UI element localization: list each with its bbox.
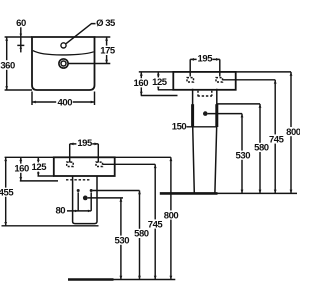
waste outlet dot (side) xyxy=(83,196,88,201)
dimension 800 (front) xyxy=(290,72,292,193)
fixing hole left (front, dashed) xyxy=(187,78,194,82)
pedestal left edge (front) xyxy=(193,89,195,193)
dimension 800 (side) xyxy=(170,157,172,279)
drain centerline extension to 175 dim xyxy=(68,63,110,65)
dimension 400 xyxy=(32,101,95,103)
160 reference line (side) xyxy=(20,180,58,182)
tap hole circle xyxy=(61,43,66,48)
leader line for tap hole diameter xyxy=(66,24,96,44)
basin inner rim line (plan) xyxy=(33,51,94,55)
hidden dashes under basin (side) xyxy=(66,179,91,181)
fixing hole right (front, dashed) xyxy=(216,78,223,82)
top edge extension line (plan) xyxy=(5,36,111,38)
dimension 580 (side) xyxy=(139,191,141,280)
pedestal right edge (front) xyxy=(215,89,217,193)
svg-text:150: 150 xyxy=(172,121,187,132)
drain outer circle xyxy=(59,59,68,68)
svg-text:60: 60 xyxy=(16,18,26,29)
svg-text:80: 80 xyxy=(55,206,65,217)
svg-text:530: 530 xyxy=(236,151,251,162)
580 reference line (front, slot top) xyxy=(217,103,260,105)
top edge extension (front) xyxy=(139,71,291,73)
svg-text:160: 160 xyxy=(134,78,149,89)
waste outlet dot (front) xyxy=(203,111,208,116)
dimension 530 (side) xyxy=(120,198,122,280)
dimension 125 (side) xyxy=(37,157,39,176)
basin outline (plan) xyxy=(32,37,95,90)
dimension 400 extension lines xyxy=(32,92,95,106)
svg-text:580: 580 xyxy=(134,229,149,240)
dimension 60 (back edge to tap centerline) xyxy=(17,27,24,52)
dimension 80 line xyxy=(67,210,91,212)
floor line (side) xyxy=(68,278,114,281)
pedestal outline (side) xyxy=(73,176,97,224)
svg-text:360: 360 xyxy=(0,60,15,71)
455 bottom extension line xyxy=(2,225,99,227)
530 reference line (front, outlet) xyxy=(208,113,242,115)
dimension 530 (front) xyxy=(241,114,243,194)
svg-text:160: 160 xyxy=(14,163,29,174)
fixing bolt dot left (side) xyxy=(77,189,80,192)
fixing bolt dot right (side) xyxy=(90,189,93,192)
fixing hole right (side, dashed) xyxy=(96,162,103,166)
580 reference line (side) xyxy=(93,190,140,192)
svg-text:125: 125 xyxy=(32,162,48,173)
dimension 745 (side) xyxy=(154,164,156,279)
bottom edge extension left (125 ref, side) xyxy=(38,175,54,177)
745 reference line (side, fixing holes) xyxy=(103,163,155,165)
dimension 125 (front) xyxy=(157,72,159,90)
svg-text:400: 400 xyxy=(58,97,73,108)
svg-text:125: 125 xyxy=(152,77,168,88)
svg-text:580: 580 xyxy=(254,143,269,154)
floor line (front) xyxy=(160,192,218,195)
dimension 160 (side) xyxy=(20,157,22,181)
dimension 195 (front) xyxy=(190,58,220,60)
fixing hole left (side, dashed) xyxy=(67,162,74,166)
dimension 745 (front) xyxy=(274,80,276,194)
dimension 80 extension hooks xyxy=(78,192,91,211)
svg-text:175: 175 xyxy=(100,46,116,57)
fixing slot right (thick bar) xyxy=(215,104,218,127)
dimension 360 xyxy=(5,37,32,90)
160 reference line (hidden depth) xyxy=(141,95,178,97)
svg-text:455: 455 xyxy=(0,188,14,199)
dimension 455 xyxy=(5,157,7,226)
hidden outlet dashes under basin xyxy=(198,95,213,97)
bottom edge extension left (125 ref) xyxy=(158,89,174,91)
fixing slot left (thick bar) xyxy=(191,104,194,127)
dimension 195 (side) xyxy=(70,143,99,145)
745 reference line (front, fixing holes) xyxy=(223,79,276,81)
150 slot line xyxy=(187,126,217,128)
dimension 175 xyxy=(106,37,108,64)
svg-text:745: 745 xyxy=(269,134,285,145)
dimension 160 (front) xyxy=(140,72,142,96)
svg-text:195: 195 xyxy=(198,53,214,64)
530 reference line (side) xyxy=(88,197,123,199)
svg-text:800: 800 xyxy=(164,210,179,221)
svg-text:195: 195 xyxy=(77,138,93,149)
basin outline (front) xyxy=(173,72,235,90)
top edge extension (side) xyxy=(5,156,171,158)
dimension 580 (front) xyxy=(259,104,261,193)
svg-text:Ø 35: Ø 35 xyxy=(96,18,116,29)
svg-text:530: 530 xyxy=(115,236,130,247)
basin outline (side) xyxy=(54,157,115,176)
drain inner circle xyxy=(61,61,66,66)
svg-text:800: 800 xyxy=(286,127,300,138)
svg-text:745: 745 xyxy=(148,219,164,230)
